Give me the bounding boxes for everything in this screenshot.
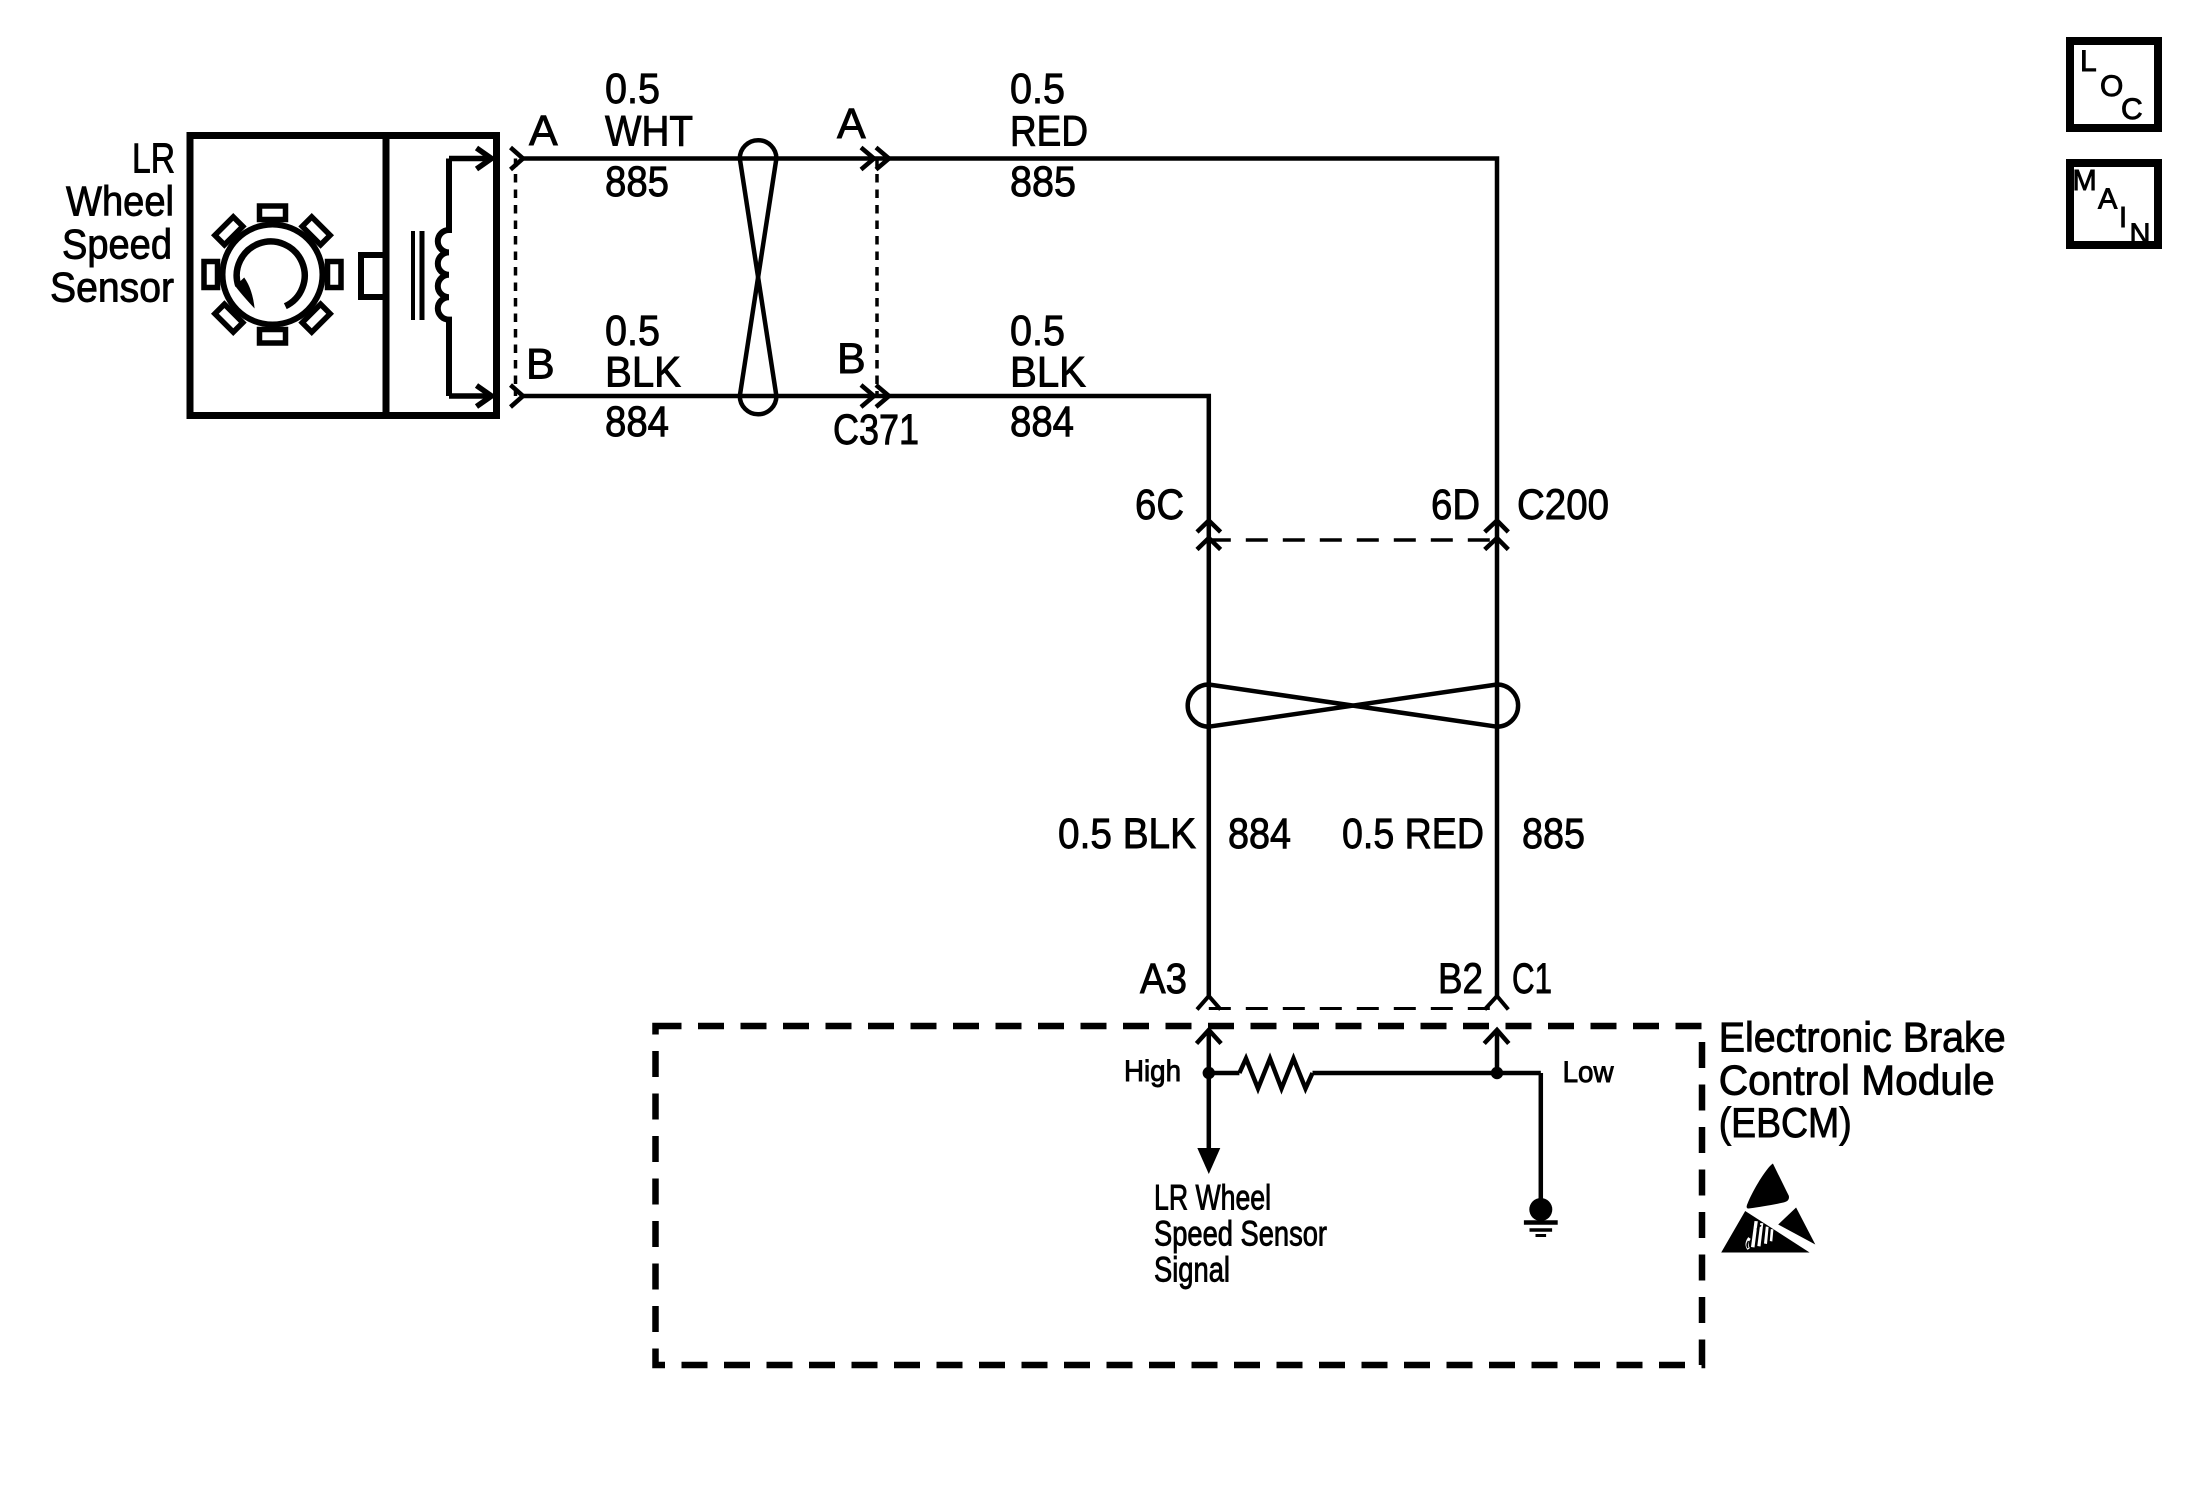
wire 885 RED label [1010, 65, 1088, 206]
svg-text:6D: 6D [1431, 481, 1480, 529]
svg-text:BLK: BLK [605, 348, 681, 396]
svg-text:I: I [2119, 202, 2127, 234]
pickup notch [361, 255, 386, 297]
svg-text:0.5: 0.5 [605, 65, 660, 113]
label LR Wheel Speed Sensor Signal [1154, 1179, 1327, 1290]
wire A (WHT 885) [522, 159, 1497, 997]
svg-text:Sensor: Sensor [50, 264, 174, 311]
sensor connector chevron pin A [511, 148, 524, 170]
svg-text:RED: RED [1010, 107, 1088, 155]
wire 884 BLK label [605, 307, 681, 446]
pickup coil [438, 159, 449, 397]
input arrow A3 (High) [1197, 1030, 1222, 1073]
svg-text:885: 885 [605, 158, 669, 206]
connector C200 chevrons right [1485, 521, 1509, 550]
resistor R1 [1209, 1059, 1541, 1089]
svg-text:Signal: Signal [1154, 1251, 1230, 1290]
connector C371 chevrons wire A [861, 148, 889, 170]
sensor box B1 [190, 136, 497, 416]
svg-text:BLK: BLK [1010, 348, 1086, 396]
svg-text:C1: C1 [1512, 955, 1552, 1003]
svg-text:B: B [837, 335, 866, 383]
svg-text:A: A [837, 100, 866, 148]
svg-text:Electronic Brake: Electronic Brake [1719, 1014, 2006, 1061]
connector C200 dashed line [1209, 538, 1497, 542]
EBCM connector chevron B2 [1485, 996, 1509, 1010]
junction dot High [1203, 1067, 1215, 1079]
EBCM connector dashed line [1209, 1007, 1497, 1010]
svg-text:B: B [526, 341, 555, 389]
EBCM dashed box [656, 1026, 1703, 1365]
svg-text:884: 884 [1228, 810, 1291, 858]
svg-text:N: N [2130, 219, 2151, 251]
MAIN box [2070, 163, 2158, 251]
LOC box [2070, 41, 2158, 128]
twisted pair symbol (vertical) [740, 140, 777, 414]
svg-text:A: A [529, 107, 558, 155]
sensor connector dashed line [514, 159, 518, 397]
svg-text:Control Module: Control Module [1719, 1057, 1995, 1104]
ground G1 [1524, 1198, 1558, 1236]
svg-text:Speed: Speed [62, 221, 172, 268]
wire 884 BLK label (right) [1010, 307, 1086, 446]
svg-text:A: A [2098, 184, 2118, 216]
svg-text:C371: C371 [833, 406, 919, 454]
input arrow B2 (Low) [1484, 1030, 1509, 1073]
svg-text:(EBCM): (EBCM) [1719, 1099, 1852, 1146]
svg-text:L: L [2080, 45, 2097, 78]
label LR Wheel Speed Sensor [50, 135, 175, 311]
coil lead B with arrow [449, 386, 492, 407]
wire 885 WHT label [605, 65, 693, 206]
transformer core lines [411, 231, 415, 320]
svg-text:C200: C200 [1517, 481, 1609, 529]
svg-text:Speed Sensor: Speed Sensor [1154, 1215, 1327, 1254]
wire B (BLK 884) [522, 396, 1209, 996]
svg-text:High: High [1124, 1055, 1181, 1088]
svg-text:A3: A3 [1140, 955, 1187, 1003]
svg-text:M: M [2073, 165, 2097, 197]
svg-text:0.5 BLK: 0.5 BLK [1058, 810, 1196, 858]
signal arrow down [1197, 1073, 1220, 1174]
svg-text:WHT: WHT [605, 107, 693, 155]
svg-text:885: 885 [1522, 810, 1585, 858]
tone wheel (gear) [204, 206, 341, 343]
twisted pair symbol (horizontal) [1188, 685, 1518, 727]
connector C371 chevrons wire B [861, 385, 889, 407]
svg-text:O: O [2100, 70, 2123, 103]
svg-text:0.5 RED: 0.5 RED [1342, 810, 1484, 858]
svg-text:884: 884 [1010, 398, 1074, 446]
EBCM title [1719, 1014, 2006, 1147]
svg-text:LR Wheel: LR Wheel [1154, 1179, 1271, 1218]
svg-text:LR: LR [132, 135, 175, 182]
EBCM connector chevron A3 [1197, 996, 1221, 1010]
svg-text:Low: Low [1563, 1056, 1614, 1089]
svg-text:6C: 6C [1135, 481, 1184, 529]
svg-text:Wheel: Wheel [66, 178, 174, 225]
svg-text:C: C [2121, 93, 2143, 126]
junction dot Low [1491, 1067, 1503, 1079]
ESD symbol [1721, 1164, 1815, 1253]
connector C200 chevrons left [1197, 521, 1221, 550]
wire to ground [1539, 1073, 1544, 1199]
svg-text:0.5: 0.5 [1010, 65, 1065, 113]
svg-text:885: 885 [1010, 158, 1076, 206]
coil lead A with arrow [449, 148, 492, 169]
svg-text:B2: B2 [1438, 955, 1483, 1003]
connector C371 dashed line [875, 159, 879, 397]
svg-text:884: 884 [605, 398, 669, 446]
sensor box divider [383, 132, 390, 419]
sensor connector chevron pin B [511, 385, 524, 407]
rotation arrow inside tone wheel [235, 241, 305, 308]
